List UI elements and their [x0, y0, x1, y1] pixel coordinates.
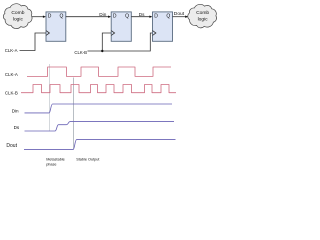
junction CLK-B — [101, 50, 103, 52]
svg-text:Ds: Ds — [14, 125, 20, 130]
comb logic cloud CL2 — [188, 4, 217, 28]
svg-text:CLK-A: CLK-A — [5, 48, 18, 53]
svg-text:logic: logic — [13, 17, 24, 23]
comb logic cloud CL1 — [3, 4, 32, 29]
wire CLK-A to FF1 clock — [20, 33, 47, 51]
svg-text:Stable Output: Stable Output — [76, 158, 100, 162]
svg-text:logic: logic — [198, 17, 209, 23]
svg-text:Q: Q — [166, 14, 170, 20]
svg-text:Comb: Comb — [11, 10, 24, 16]
flip-flop FF2 — [111, 12, 131, 41]
svg-text:CLK-B: CLK-B — [74, 50, 87, 55]
svg-text:phase: phase — [46, 163, 56, 167]
waveform Ds (metastable mid level then resolves high) — [25, 122, 175, 131]
svg-text:Dout: Dout — [174, 11, 185, 17]
svg-text:Metastable: Metastable — [46, 158, 65, 162]
svg-text:D: D — [113, 14, 117, 20]
svg-text:D: D — [154, 14, 158, 20]
marker line t2 (resolving clock edge) — [73, 78, 75, 150]
waveform CLK-A — [27, 67, 171, 76]
wire CLK-B trunk — [88, 33, 153, 51]
svg-text:Comb: Comb — [196, 10, 209, 16]
svg-text:CLK-B: CLK-B — [5, 90, 18, 95]
wire CLK-B branch to FF2 clock — [102, 33, 111, 51]
svg-text:Q: Q — [125, 14, 129, 20]
svg-text:Q: Q — [60, 14, 64, 20]
svg-text:CLK-A: CLK-A — [5, 72, 18, 77]
flip-flop FF3 — [153, 12, 173, 41]
wire FF1 Q to FF2 D (net Din) — [66, 16, 111, 18]
marker line t1 (metastable clock edge) — [48, 64, 50, 131]
flip-flop FF1 — [46, 12, 66, 41]
svg-text:Ds: Ds — [139, 12, 145, 17]
waveform CLK-B — [21, 85, 176, 93]
svg-text:Dout: Dout — [6, 143, 17, 149]
waveform Dout — [24, 140, 176, 150]
svg-text:D: D — [48, 14, 52, 20]
wire FF3 Q to cloud CL2 (net Dout) — [173, 16, 189, 18]
svg-text:Din: Din — [99, 12, 106, 17]
wire FF2 Q to FF3 D (net Ds) — [131, 16, 152, 18]
svg-text:Din: Din — [12, 108, 19, 113]
waveform Din — [25, 104, 173, 113]
wire CL1 to FF1 D input — [32, 16, 46, 18]
